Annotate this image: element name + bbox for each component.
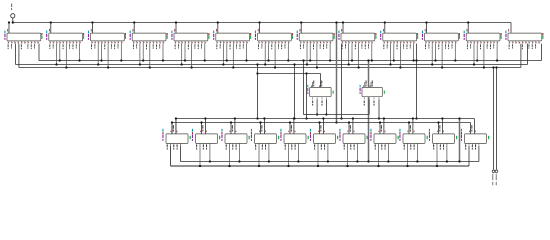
pin labels top U22 — [348, 125, 355, 132]
wires U2 to buses — [57, 44, 80, 68]
wire connector pin2 from bus GND — [496, 68, 498, 170]
IC U18 LED digit driver — [225, 134, 247, 144]
value U20 part red — [280, 132, 281, 134]
junction U17 T1 — [204, 117, 206, 119]
pin number 28 U10 — [382, 29, 385, 32]
value U25 TM1637 — [429, 134, 430, 140]
wire U18 pin1 to T2 — [230, 123, 232, 134]
junction U8 pin1 T1 — [340, 117, 342, 119]
junctions U6 buses — [222, 59, 247, 68]
wires U4 to buses — [140, 44, 163, 68]
junction CLK1 top — [293, 63, 295, 65]
wire U16 pin2 to T1 — [175, 119, 177, 134]
pin name dout U16 — [190, 136, 191, 139]
pins top U14 — [313, 82, 321, 87]
wires U9 to buses — [349, 44, 372, 68]
pins bottom U21 — [315, 143, 328, 166]
value U16 TM1637 — [162, 134, 163, 140]
net labels U8 — [300, 44, 327, 49]
junction U9 VCC — [342, 21, 344, 23]
junction thick L1 — [458, 160, 460, 162]
designator U6 — [213, 31, 214, 34]
pin 15 name DO U11 — [459, 35, 460, 39]
designator U20 — [280, 129, 281, 132]
wire U14 pin7 to node — [325, 100, 327, 115]
designator U12 — [464, 31, 465, 34]
pin labels bottom U22 — [344, 145, 355, 150]
junction U23 T2 — [379, 121, 381, 123]
junction U22 T2 — [348, 121, 350, 123]
pin name dout U17 — [219, 136, 220, 139]
junction U23 L2 — [377, 165, 379, 167]
IC U20 LED digit driver — [284, 134, 306, 144]
pin 15 number U12 — [501, 33, 502, 35]
net labels U9 — [342, 44, 369, 49]
connector J1 labels — [492, 174, 496, 186]
pin number 28 U5 — [173, 29, 176, 32]
wire U20 pin2 to T1 — [293, 119, 295, 134]
IC U19 LED digit driver — [255, 134, 277, 144]
net labels U6 — [216, 44, 243, 49]
junction U17 T2 — [200, 121, 202, 123]
net labels U7 — [258, 44, 285, 49]
IC U25 LED digit driver — [433, 134, 455, 144]
value U17 TM1637 — [192, 134, 193, 140]
pin labels bottom U16 — [167, 145, 178, 150]
junction CLK1 bottom — [293, 117, 295, 119]
wire U5 pin28 to VCC bus — [175, 23, 177, 34]
junctions U4 buses — [139, 59, 164, 68]
junction connector pin2 — [495, 66, 497, 68]
designator U10 — [380, 31, 381, 34]
wire bus T2 CLK chain — [172, 123, 471, 134]
junction U18 T1 — [234, 117, 236, 119]
pins bottom U10 — [384, 41, 414, 44]
net labels U13 — [509, 44, 536, 49]
pins bottom U13 — [509, 41, 539, 44]
pin 15 number U6 — [250, 33, 251, 35]
designator U1 — [4, 31, 5, 34]
pins bottom U15 — [364, 97, 379, 100]
pin labels bottom U20 — [285, 145, 296, 150]
wire vertical net CLK1 — [294, 65, 296, 119]
junction U12 VCC — [467, 21, 469, 23]
junction connector pin1 — [492, 66, 494, 68]
wire U24 pin1 to T2 — [408, 123, 410, 134]
net labels U11 — [425, 44, 452, 49]
junction U25 L1 — [446, 160, 448, 162]
junction net E left — [256, 72, 258, 74]
wire top power bus VCC — [13, 23, 511, 33]
junctions U12 buses — [473, 59, 498, 68]
value U14 — [307, 88, 308, 94]
value U3 TM1640 — [88, 34, 89, 40]
junction U10 pin10 T1 — [415, 117, 417, 119]
pin numbers U12 — [468, 42, 498, 43]
wires U5 to buses — [182, 44, 205, 68]
designator U19 — [251, 129, 252, 132]
wire vertical U10 pin10 to T1 — [416, 44, 418, 119]
pin name out U15 — [384, 91, 385, 94]
junction U24 T2 — [408, 121, 410, 123]
value U4 TM1640 — [130, 34, 131, 40]
pin 15 number U10 — [417, 33, 418, 35]
power flag +3V3_LED — [11, 4, 15, 18]
pins bottom U1 — [8, 41, 38, 44]
designator U9 — [338, 31, 339, 34]
junction U23 L1 — [387, 160, 389, 162]
junction U14 pin7 node — [325, 113, 327, 115]
pins bottom U16 — [167, 143, 180, 166]
junction U22 L1 — [356, 160, 358, 162]
pin numbers U8 — [301, 42, 331, 43]
wire bus L1 GND2 — [180, 146, 479, 162]
wire bus GND — [19, 44, 521, 68]
pin labels top U23 — [379, 125, 386, 132]
pin 15 name DO U7 — [292, 35, 293, 39]
IC U5 LED driver — [174, 33, 208, 41]
junctions U3 buses — [97, 59, 122, 68]
junction U10 pin10 bus A — [415, 59, 417, 61]
junction net B bottom — [335, 121, 337, 123]
pin 15 name DO U10 — [417, 35, 418, 39]
pin name dout U26 — [488, 136, 489, 139]
IC U7 LED driver — [258, 33, 292, 41]
pin 15 number U1 — [41, 33, 42, 35]
pin 15 number U8 — [334, 33, 335, 35]
pin 15 name DO U13 — [542, 35, 543, 39]
value U22 part red — [339, 132, 340, 134]
pins bottom U18 — [226, 143, 239, 166]
wire U6 pin28 to VCC bus — [217, 23, 219, 34]
pin 15 name DO U6 — [250, 35, 251, 39]
IC U22 LED digit driver — [343, 134, 365, 144]
pins bottom U8 — [300, 41, 330, 44]
value U19 TM1637 — [251, 134, 252, 140]
wire U16 pin1 to T2 — [171, 123, 173, 134]
IC U3 LED driver — [91, 33, 125, 41]
value U10 TM1640 — [380, 34, 381, 40]
wire U21 pin2 to T1 — [322, 119, 324, 134]
junction U24 T1 — [412, 117, 414, 119]
junction U8 VCC — [300, 21, 302, 23]
wire U17 pin2 to T1 — [204, 119, 206, 134]
value U6 TM1640 — [213, 34, 214, 40]
pin labels bottom U24 — [404, 145, 415, 150]
wire vertical thick net B — [336, 23, 338, 123]
pins bottom U24 — [404, 143, 417, 166]
pins bottom U9 — [342, 41, 372, 44]
IC U10 LED driver — [383, 33, 417, 41]
pin labels bottom U23 — [375, 145, 386, 150]
junction U21 L2 — [317, 165, 319, 167]
wires U7 to buses — [265, 44, 288, 68]
junction U21 L1 — [327, 160, 329, 162]
pin labels bottom U15 — [364, 101, 375, 106]
wire thick T1 to L1 — [459, 119, 461, 162]
pin labels top U24 — [408, 125, 415, 132]
designator U11 — [422, 31, 423, 34]
junctions U8 buses — [306, 59, 331, 68]
junction U20 L1 — [297, 160, 299, 162]
value U9 TM1640 — [338, 34, 339, 40]
pin labels top U18 — [230, 125, 237, 132]
wire U8 pin28 to VCC bus — [300, 23, 302, 34]
wire vertical U8 pin1 to T1 — [341, 44, 343, 119]
pin name dout U24 — [427, 136, 428, 139]
wires U3 to buses — [98, 44, 121, 68]
pin name dout U23 — [398, 136, 399, 139]
wire U15 pin5 to node — [368, 100, 370, 115]
pins bottom U26 — [466, 143, 479, 146]
junction U25 T1 — [441, 117, 443, 119]
junction U7 VCC — [258, 21, 260, 23]
value U5 TM1640 — [171, 34, 172, 40]
pin name dout U25 — [456, 136, 457, 139]
junction DIN1 top — [256, 63, 258, 65]
wires U10 to buses — [391, 44, 414, 68]
designator U22 — [339, 129, 340, 132]
wire U25 pin2 to T1 — [441, 119, 443, 134]
junction U6 VCC — [217, 21, 219, 23]
value U24 TM1637 — [399, 134, 400, 140]
pin 15 number U11 — [459, 33, 460, 35]
value U24 part red — [399, 132, 400, 134]
junction U21 T2 — [318, 121, 320, 123]
junction U20 L2 — [287, 165, 289, 167]
pin number 28 U1 — [6, 29, 9, 32]
wire U10 pin28 to VCC bus — [384, 23, 386, 34]
pins bottom U25 — [434, 143, 447, 166]
junction net E mid — [305, 72, 307, 74]
value U18 TM1637 — [221, 134, 222, 140]
junction U14 pin5 node — [316, 113, 318, 115]
designator U2 — [46, 31, 47, 34]
pin numbers U10 — [384, 42, 414, 43]
pin 15 number U3 — [125, 33, 126, 35]
designator U3 — [88, 31, 89, 34]
pin name out U14 — [333, 91, 334, 94]
IC U12 LED driver — [466, 33, 500, 41]
IC U6 LED driver — [216, 33, 250, 41]
IC U9 LED driver — [341, 33, 375, 41]
pins bottom U14 — [313, 97, 327, 100]
junction U18 L2 — [228, 165, 230, 167]
pin labels bottom U19 — [255, 145, 266, 150]
wire U7 pin28 to VCC bus — [259, 23, 261, 34]
pin 15 number U2 — [83, 33, 84, 35]
junction net A top — [302, 59, 304, 61]
wire U23 pin1 to T2 — [379, 123, 381, 134]
junction U19 T2 — [259, 121, 261, 123]
pin labels top U19 — [259, 125, 266, 132]
wire power to bus — [12, 18, 14, 23]
pin number 28 U8 — [299, 29, 302, 32]
wire vertical thick net C — [368, 61, 370, 162]
pin 15 name DO U9 — [375, 35, 376, 39]
pin name dout U20 — [308, 136, 309, 139]
pin labels bottom U26 — [465, 145, 476, 150]
junction U25 L2 — [436, 165, 438, 167]
pin labels top U14 — [311, 81, 322, 88]
pins bottom U11 — [426, 41, 456, 44]
junction U19 T1 — [263, 117, 265, 119]
junction net E T1 — [305, 117, 307, 119]
pin numbers U11 — [426, 42, 456, 43]
value U16 part red — [162, 132, 163, 134]
pins bottom U23 — [375, 143, 388, 166]
junction U1 VCC — [8, 21, 10, 23]
IC U8 LED driver — [299, 33, 333, 41]
pin labels bottom U17 — [196, 145, 207, 150]
pins bottom U3 — [92, 41, 122, 44]
pin name dout U19 — [278, 136, 279, 139]
pins bottom U20 — [285, 143, 298, 166]
pins bottom U19 — [256, 143, 269, 166]
value U2 TM1640 — [46, 34, 47, 40]
pins top U15 — [365, 82, 371, 87]
value U18 part red — [221, 132, 222, 134]
designator U21 — [310, 129, 311, 132]
wire U11 pin28 to VCC bus — [426, 23, 428, 34]
designator U13 — [505, 31, 506, 34]
IC U26 LED digit driver — [465, 134, 487, 144]
wire U14 pin5 to node — [316, 100, 318, 115]
pin name dout U21 — [337, 136, 338, 139]
pin labels top U15 — [363, 81, 372, 88]
junctions U11 buses — [431, 59, 456, 68]
pin 15 number U7 — [292, 33, 293, 35]
wire U4 pin28 to VCC bus — [133, 23, 135, 34]
pins bottom U7 — [259, 41, 289, 44]
IC U17 LED digit driver — [196, 134, 218, 144]
pin 15 name DO U3 — [125, 35, 126, 39]
wires U1 to buses — [0, 0, 1, 1]
pin labels bottom U25 — [433, 145, 444, 150]
designator U26 — [461, 129, 462, 132]
junction U19 L2 — [258, 165, 260, 167]
net labels U4 — [133, 44, 160, 49]
IC U14 buffer — [310, 87, 331, 96]
junction power/bus — [12, 21, 14, 23]
pins bottom U2 — [50, 41, 80, 44]
value U26 TM1637 — [461, 134, 462, 140]
value U22 TM1637 — [339, 134, 340, 140]
pin 15 name DO U12 — [501, 35, 502, 39]
junctions U10 buses — [389, 59, 414, 68]
wire U9 pin28 to VCC bus — [342, 23, 344, 34]
pins bottom U5 — [175, 41, 205, 44]
pin name dout U18 — [249, 136, 250, 139]
wire U15 pin7 to T1 — [378, 100, 380, 119]
pins bottom U22 — [344, 143, 357, 166]
pin number 28 U9 — [340, 29, 343, 32]
wire U2 pin28 to VCC bus — [50, 23, 52, 34]
designator U8 — [297, 31, 298, 34]
pin labels top U17 — [200, 125, 207, 132]
value U15 — [360, 88, 361, 94]
wire U20 pin1 to T2 — [289, 123, 291, 134]
designator U15 — [360, 85, 361, 88]
junction U24 L1 — [416, 160, 418, 162]
designator U16 — [162, 129, 163, 132]
junction U21 T1 — [322, 117, 324, 119]
wire U12 pin28 to VCC bus — [467, 23, 469, 34]
net labels U12 — [467, 44, 494, 49]
pin numbers U9 — [343, 42, 373, 43]
pin labels bottom U18 — [226, 145, 237, 150]
pin numbers U13 — [510, 42, 540, 43]
IC U15 buffer — [362, 87, 382, 96]
pin 15 name DO U8 — [334, 35, 335, 39]
wire U3 pin28 to VCC bus — [92, 23, 94, 34]
wire net E branch to T1 — [306, 74, 308, 119]
net labels U5 — [175, 44, 202, 49]
wire U21 pin1 to T2 — [319, 123, 321, 134]
value U25 part red — [429, 132, 430, 134]
pin labels top U21 — [318, 125, 325, 132]
junction U3 VCC — [91, 21, 93, 23]
junction U15 pin7 — [378, 117, 380, 119]
pin number 28 U12 — [466, 29, 469, 32]
wire bus L2 VCC2 thick — [171, 146, 470, 166]
wire U25 pin1 to T2 — [438, 123, 440, 134]
junction U20 T2 — [289, 121, 291, 123]
junction U18 L1 — [238, 160, 240, 162]
wire U23 pin2 to T1 — [383, 119, 385, 134]
net labels U10 — [383, 44, 410, 49]
junction U23 T1 — [383, 117, 385, 119]
IC U16 LED digit driver — [166, 134, 188, 144]
designator U7 — [255, 31, 256, 34]
designator U23 — [370, 129, 371, 132]
junction DIN1 bottom — [256, 117, 258, 119]
junctions U2 buses — [55, 59, 80, 68]
designator U25 — [429, 129, 430, 132]
junction thick T1 — [458, 117, 460, 119]
junctions U7 buses — [264, 59, 289, 68]
value U11 TM1640 — [422, 34, 423, 40]
pin number 28 U11 — [424, 29, 427, 32]
junction U17 L2 — [199, 165, 201, 167]
value U20 TM1637 — [280, 134, 281, 140]
junctions U13 buses — [0, 0, 1, 1]
value U8 TM1640 — [297, 34, 298, 40]
pins bottom U4 — [133, 41, 163, 44]
pin 15 number U9 — [375, 33, 376, 35]
pin 15 number U13 — [542, 33, 543, 35]
junction U22 L2 — [346, 165, 348, 167]
pins bottom U12 — [467, 41, 497, 44]
junction net B top — [335, 21, 337, 23]
pin 15 name DO U1 — [41, 35, 42, 39]
wires U6 to buses — [223, 44, 246, 68]
IC U21 LED digit driver — [314, 134, 336, 144]
pin number 28 U2 — [48, 29, 51, 32]
connector J1 pin circles — [492, 170, 498, 173]
junction U17 L1 — [209, 160, 211, 162]
wires U8 to buses — [307, 44, 330, 68]
pin labels top U20 — [289, 125, 296, 132]
pin labels bottom U14 — [312, 101, 322, 106]
wire U24 pin2 to T1 — [412, 119, 414, 134]
junction U16 T2 — [171, 121, 173, 123]
value U7 TM1640 — [255, 34, 256, 40]
pin name dout U22 — [367, 136, 368, 139]
pin 15 name DO U5 — [208, 35, 209, 39]
wire vertical net A to node — [304, 61, 316, 115]
pin numbers U2 — [50, 42, 80, 43]
